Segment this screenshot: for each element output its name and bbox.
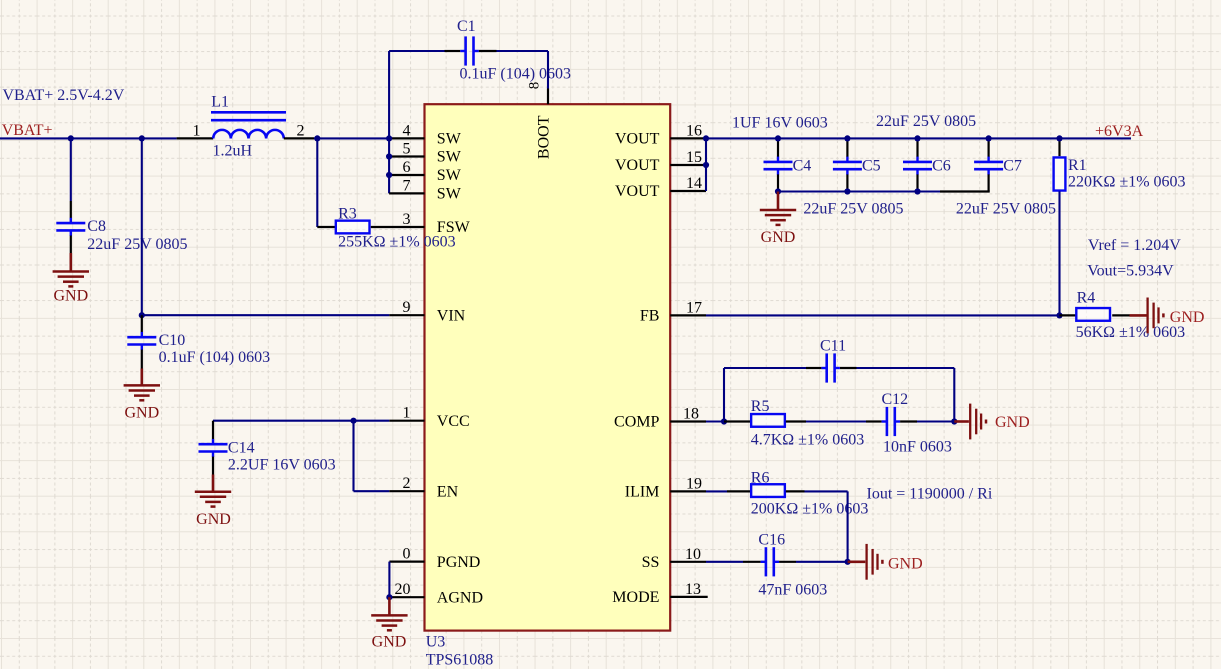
svg-text:200KΩ ±1% 0603: 200KΩ ±1% 0603 bbox=[751, 500, 869, 517]
junction SS-R6-GND bbox=[845, 559, 851, 565]
capacitor C16 bbox=[761, 561, 766, 563]
wire IC pin 13 MODE stub bbox=[670, 596, 708, 598]
resistor R5 bbox=[751, 414, 785, 427]
ground stem below C14 bbox=[212, 475, 215, 492]
wire C1 top horizontal right bbox=[497, 50, 549, 52]
ground symbol right of R4 bbox=[1146, 298, 1148, 334]
wire R5 to C12 bbox=[806, 420, 866, 422]
wire R3 to IC pin 3 bbox=[371, 226, 425, 228]
wire C1 right lead bbox=[479, 50, 497, 52]
svg-text:MODE: MODE bbox=[612, 589, 659, 606]
wire IC pin 5 lead bbox=[389, 155, 424, 157]
wire C5 bottom lead bbox=[846, 174, 848, 191]
svg-text:9: 9 bbox=[403, 299, 411, 316]
wire L1 to IC pin 4 bbox=[314, 137, 389, 139]
wire C10 top lead bbox=[141, 315, 143, 332]
wire IC pin 9 lead bbox=[389, 314, 424, 316]
svg-text:VIN: VIN bbox=[437, 307, 466, 324]
junction FB-R1-R4 bbox=[1056, 312, 1062, 318]
svg-text:R4: R4 bbox=[1077, 290, 1096, 307]
junction VOUT pin16 bbox=[703, 135, 709, 141]
svg-text:14: 14 bbox=[686, 175, 702, 192]
svg-text:47nF 0603: 47nF 0603 bbox=[758, 582, 827, 599]
wire C16 to GND junction bbox=[796, 561, 848, 563]
svg-text:GND: GND bbox=[888, 555, 923, 572]
svg-text:GND: GND bbox=[196, 511, 231, 528]
inductor L1 bbox=[213, 130, 284, 139]
wire EN vertical bbox=[352, 421, 354, 492]
wire IC pin 0 PGND lead bbox=[389, 560, 424, 562]
ground stem below AGND bbox=[388, 597, 391, 615]
wire EN horizontal bbox=[354, 490, 390, 492]
svg-text:R5: R5 bbox=[751, 398, 770, 415]
junction top rail C7 bbox=[986, 135, 992, 141]
wire IC pin 16 lead bbox=[670, 137, 706, 139]
svg-text:C1: C1 bbox=[457, 18, 476, 35]
wire C1 left lead bbox=[445, 50, 461, 52]
ground stem below C8 bbox=[70, 253, 73, 272]
wire C6 bottom lead bbox=[916, 174, 918, 191]
ground stem below C4 bbox=[777, 192, 780, 211]
svg-text:2.2UF 16V 0603: 2.2UF 16V 0603 bbox=[228, 457, 336, 474]
junction SW trunk pin6 bbox=[386, 172, 392, 178]
wire cap bottom rail bbox=[778, 190, 940, 192]
wire R1 bottom to FB row bbox=[1058, 191, 1060, 315]
svg-text:SW: SW bbox=[437, 186, 462, 203]
junction bottom rail C4 bbox=[775, 188, 781, 194]
svg-text:VOUT: VOUT bbox=[615, 131, 660, 148]
svg-text:R6: R6 bbox=[751, 470, 770, 487]
wire VIN horizontal to IC bbox=[142, 314, 389, 316]
svg-text:Vout=5.934V: Vout=5.934V bbox=[1087, 263, 1174, 280]
svg-text:L1: L1 bbox=[211, 94, 229, 111]
svg-text:22uF 25V 0805: 22uF 25V 0805 bbox=[87, 236, 187, 253]
svg-text:C4: C4 bbox=[793, 157, 812, 174]
svg-text:GND: GND bbox=[1170, 309, 1205, 326]
svg-text:R3: R3 bbox=[338, 206, 357, 223]
junction COMP-C11 bbox=[721, 418, 727, 424]
wire C11 right lead bbox=[840, 367, 857, 369]
ground symbol below C10 bbox=[124, 384, 160, 387]
resistor R3 bbox=[336, 221, 370, 234]
svg-text:10nF 0603: 10nF 0603 bbox=[883, 438, 952, 455]
svg-text:5: 5 bbox=[403, 141, 411, 158]
wire IC pin 10 lead bbox=[670, 561, 706, 563]
wire C7 bottom lead bbox=[987, 174, 989, 191]
svg-text:ILIM: ILIM bbox=[625, 484, 660, 501]
wire IC pin 18 lead bbox=[670, 420, 706, 422]
junction bottom rail C5 bbox=[844, 188, 850, 194]
wire R6 to corner bbox=[805, 490, 848, 492]
svg-text:EN: EN bbox=[437, 483, 459, 500]
svg-text:VCC: VCC bbox=[437, 413, 470, 430]
resistor R1 bbox=[1054, 157, 1066, 190]
svg-text:2: 2 bbox=[403, 475, 411, 492]
svg-text:4: 4 bbox=[403, 122, 411, 139]
wire IC pin 15 lead bbox=[670, 164, 706, 166]
svg-text:GND: GND bbox=[761, 229, 796, 246]
wire FB row bbox=[706, 314, 1060, 316]
wire C8 top lead bbox=[70, 201, 72, 218]
junction VOUT pin15 bbox=[703, 162, 709, 168]
svg-text:C8: C8 bbox=[87, 218, 106, 235]
ground stem below C10 bbox=[141, 369, 144, 386]
svg-text:22uF 25V 0805: 22uF 25V 0805 bbox=[876, 113, 976, 130]
wire C8 branch vertical bbox=[70, 138, 72, 201]
svg-text:22uF 25V 0805: 22uF 25V 0805 bbox=[956, 200, 1056, 217]
wire C12 right lead bbox=[900, 420, 917, 422]
capacitor C1 bbox=[460, 50, 465, 52]
wire C11 left vertical bbox=[723, 368, 725, 422]
wire R4 left lead bbox=[1060, 314, 1077, 316]
svg-text:56KΩ ±1% 0603: 56KΩ ±1% 0603 bbox=[1076, 324, 1186, 341]
junction bottom rail C6 bbox=[914, 188, 920, 194]
svg-text:19: 19 bbox=[686, 475, 702, 492]
svg-text:17: 17 bbox=[686, 299, 702, 316]
wire R5 left lead bbox=[724, 420, 751, 422]
wire IC pin 6 lead bbox=[389, 174, 424, 176]
ground symbol SS bbox=[865, 544, 867, 580]
svg-text:VOUT: VOUT bbox=[615, 157, 660, 174]
wire C10 bottom lead bbox=[141, 350, 143, 369]
wire R4 right lead bbox=[1112, 314, 1129, 316]
wire PGND-AGND vertical bbox=[388, 562, 390, 598]
svg-text:6: 6 bbox=[403, 159, 411, 176]
wire C8 bottom lead bbox=[70, 236, 72, 254]
ground stem COMP bbox=[954, 420, 969, 423]
wire R1 top lead bbox=[1058, 138, 1060, 156]
svg-text:1UF 16V 0603: 1UF 16V 0603 bbox=[732, 115, 828, 132]
wire VCC horizontal bbox=[213, 420, 389, 422]
wire BOOT drop navy bbox=[547, 51, 549, 89]
svg-text:AGND: AGND bbox=[437, 589, 483, 606]
wire IC pin 7 lead bbox=[389, 192, 424, 194]
ground stem SS bbox=[848, 560, 866, 563]
junction VBAT-VIN trunk bbox=[139, 135, 145, 141]
svg-text:COMP: COMP bbox=[614, 414, 659, 431]
junction top rail C4 bbox=[775, 135, 781, 141]
svg-text:SS: SS bbox=[642, 554, 660, 571]
svg-text:7: 7 bbox=[403, 177, 411, 194]
wire ILIM-SS vertical bbox=[847, 491, 849, 561]
capacitor C10 bbox=[141, 332, 143, 337]
svg-text:C12: C12 bbox=[882, 391, 909, 408]
svg-text:22uF 25V 0805: 22uF 25V 0805 bbox=[803, 200, 903, 217]
svg-text:0.1uF (104) 0603: 0.1uF (104) 0603 bbox=[460, 65, 572, 82]
junction AGND bbox=[386, 594, 392, 600]
wire C4 top lead bbox=[777, 138, 779, 157]
ground symbol below C8 bbox=[53, 270, 89, 273]
junction top rail C6 bbox=[914, 135, 920, 141]
wire IC pin 17 lead bbox=[670, 314, 706, 316]
svg-text:220KΩ ±1% 0603: 220KΩ ±1% 0603 bbox=[1068, 173, 1186, 190]
junction C11-C12-GND bbox=[951, 418, 957, 424]
wire IC pin 19 lead bbox=[670, 490, 706, 492]
svg-text:+6V3A: +6V3A bbox=[1095, 123, 1144, 140]
wire C1 top horizontal left bbox=[389, 50, 444, 52]
svg-text:3: 3 bbox=[403, 211, 411, 228]
svg-text:R1: R1 bbox=[1068, 157, 1087, 174]
wire VOUT top rail bbox=[706, 137, 1131, 139]
svg-text:15: 15 bbox=[686, 149, 702, 166]
svg-text:C6: C6 bbox=[932, 157, 951, 174]
wire VBAT+ rail from left edge to L1 bbox=[0, 137, 177, 139]
junction VCC-EN bbox=[350, 418, 356, 424]
svg-text:Iout = 1190000 / Ri: Iout = 1190000 / Ri bbox=[867, 486, 993, 503]
svg-text:1: 1 bbox=[403, 405, 411, 422]
svg-text:4.7KΩ ±1% 0603: 4.7KΩ ±1% 0603 bbox=[751, 432, 865, 449]
junction top rail R1 bbox=[1056, 135, 1062, 141]
svg-text:C7: C7 bbox=[1003, 157, 1022, 174]
wire C16 right lead bbox=[779, 561, 796, 563]
capacitor C4 bbox=[777, 157, 779, 162]
wire C16 left lead bbox=[743, 561, 761, 563]
wire VIN trunk vertical bbox=[141, 138, 143, 315]
resistor R4 bbox=[1076, 308, 1110, 321]
ground symbol below AGND bbox=[371, 614, 407, 617]
capacitor C12 bbox=[882, 420, 887, 422]
junction SW trunk pin4 bbox=[386, 135, 392, 141]
junction top rail C5 bbox=[844, 135, 850, 141]
ground symbol below C4 bbox=[760, 209, 796, 212]
wire C12 left lead bbox=[866, 420, 882, 422]
wire C11 left lead bbox=[806, 367, 821, 369]
svg-text:10: 10 bbox=[685, 546, 701, 563]
wire C14 top lead bbox=[212, 421, 214, 440]
ground symbol COMP bbox=[969, 404, 971, 440]
junction SW trunk pin5 bbox=[386, 153, 392, 159]
wire R3 branch vertical bbox=[316, 138, 318, 227]
svg-text:FB: FB bbox=[640, 308, 660, 325]
wire C14 bottom lead bbox=[212, 457, 214, 475]
svg-text:C11: C11 bbox=[820, 338, 846, 355]
svg-text:SW: SW bbox=[437, 131, 462, 148]
svg-text:0: 0 bbox=[403, 546, 411, 563]
wire cap bottom rail to C7 bbox=[940, 190, 990, 192]
wire C11 top left bbox=[724, 367, 806, 369]
wire SW trunk / C1 left vertical bbox=[388, 51, 390, 193]
junction VBAT-C8 bbox=[68, 135, 74, 141]
wire R6 left lead bbox=[727, 490, 751, 492]
svg-text:C5: C5 bbox=[862, 157, 881, 174]
resistor R6 bbox=[751, 484, 785, 497]
svg-text:GND: GND bbox=[995, 414, 1030, 431]
wire R5 right lead bbox=[786, 420, 806, 422]
wire R6 right lead bbox=[786, 490, 805, 492]
svg-text:SW: SW bbox=[437, 149, 462, 166]
svg-text:VOUT: VOUT bbox=[615, 183, 660, 200]
ground symbol below C14 bbox=[195, 490, 231, 493]
svg-text:18: 18 bbox=[683, 406, 699, 423]
wire IC pin 1 lead bbox=[389, 420, 424, 422]
svg-text:255KΩ ±1% 0603: 255KΩ ±1% 0603 bbox=[338, 233, 456, 250]
svg-text:VBAT+ 2.5V-4.2V: VBAT+ 2.5V-4.2V bbox=[3, 87, 125, 104]
svg-text:8: 8 bbox=[527, 82, 543, 90]
wire IC pin 4 lead bbox=[389, 137, 424, 139]
op-amp/IC U3 TPS61088 body bbox=[425, 104, 671, 630]
svg-text:PGND: PGND bbox=[437, 554, 481, 571]
capacitor C6 bbox=[916, 157, 918, 162]
svg-text:U3: U3 bbox=[426, 634, 446, 651]
ground stem right of R4 bbox=[1130, 314, 1147, 317]
svg-text:BOOT: BOOT bbox=[535, 115, 552, 159]
svg-text:0.1uF (104) 0603: 0.1uF (104) 0603 bbox=[159, 349, 271, 366]
wire SS row bbox=[706, 561, 743, 563]
capacitor C8 bbox=[70, 218, 72, 223]
svg-text:SW: SW bbox=[437, 167, 462, 184]
wire C11 top right bbox=[857, 367, 955, 369]
svg-text:Vref = 1.204V: Vref = 1.204V bbox=[1088, 237, 1181, 254]
wire C7 top lead bbox=[987, 138, 989, 157]
svg-text:13: 13 bbox=[685, 581, 701, 598]
svg-text:C10: C10 bbox=[159, 332, 186, 349]
junction VIN-C10 bbox=[139, 312, 145, 318]
wire L1 pin 1 lead bbox=[177, 137, 214, 139]
capacitor C5 bbox=[846, 157, 848, 162]
wire COMP row to junction bbox=[706, 420, 724, 422]
wire ILIM row bbox=[706, 490, 727, 492]
svg-text:GND: GND bbox=[124, 404, 159, 421]
svg-text:GND: GND bbox=[372, 634, 407, 651]
wire C4 bottom lead bbox=[777, 174, 779, 191]
wire C11 right vertical bbox=[953, 368, 955, 422]
capacitor C11 bbox=[821, 367, 826, 369]
wire C6 top lead bbox=[916, 138, 918, 157]
junction L1-R3 bbox=[314, 135, 320, 141]
capacitor C14 bbox=[212, 439, 214, 444]
svg-text:C14: C14 bbox=[228, 440, 255, 457]
svg-text:20: 20 bbox=[395, 581, 411, 598]
svg-text:GND: GND bbox=[53, 288, 88, 305]
svg-text:2: 2 bbox=[297, 123, 305, 140]
wire IC pin 20 AGND lead bbox=[389, 596, 424, 598]
svg-text:TPS61088: TPS61088 bbox=[426, 652, 494, 669]
wire C5 top lead bbox=[846, 138, 848, 157]
wire VOUT trunk vertical bbox=[705, 138, 707, 191]
wire L1 pin 2 lead bbox=[284, 137, 314, 139]
svg-text:1: 1 bbox=[193, 123, 201, 140]
svg-text:C16: C16 bbox=[758, 532, 785, 549]
wire IC pin 14 lead bbox=[670, 190, 706, 192]
wire IC pin 2 lead bbox=[389, 490, 424, 492]
capacitor C7 bbox=[987, 157, 989, 162]
wire R3 left lead bbox=[317, 226, 336, 228]
svg-text:VBAT+: VBAT+ bbox=[2, 122, 53, 139]
svg-text:16: 16 bbox=[686, 122, 702, 139]
wire BOOT pin lead bbox=[547, 89, 549, 105]
svg-text:1.2uH: 1.2uH bbox=[213, 143, 253, 160]
wire C12 to GND junction bbox=[917, 420, 954, 422]
